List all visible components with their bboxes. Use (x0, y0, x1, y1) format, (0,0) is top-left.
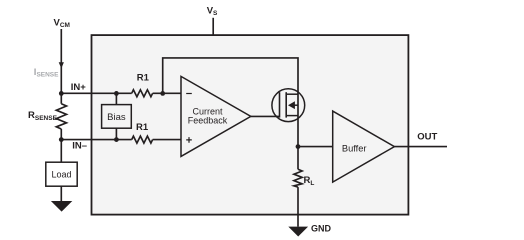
svg-text:OUT: OUT (417, 132, 437, 143)
svg-text:GND: GND (311, 223, 332, 233)
svg-text:Buffer: Buffer (342, 144, 367, 154)
svg-text:IN–: IN– (72, 141, 87, 152)
svg-text:Load: Load (51, 170, 71, 180)
svg-text:Bias: Bias (107, 112, 126, 123)
svg-text:ISENSE: ISENSE (34, 67, 59, 79)
svg-text:R1: R1 (137, 73, 150, 84)
svg-text:Feedback: Feedback (188, 115, 228, 125)
svg-text:VS: VS (207, 5, 218, 17)
svg-text:IN+: IN+ (71, 82, 87, 93)
svg-text:R1: R1 (136, 122, 149, 133)
svg-text:RSENSE: RSENSE (28, 110, 58, 122)
svg-text:VCM: VCM (54, 18, 70, 30)
